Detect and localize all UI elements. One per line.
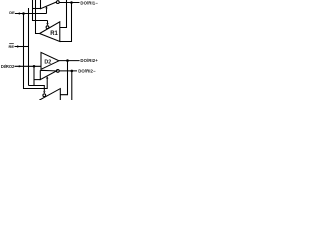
arrow into D1 enable: [45, 6, 47, 8]
wire RE line: [15, 46, 29, 48]
wire DE up to D1 enable: [46, 8, 48, 13]
bubble R2 enable: [43, 94, 46, 97]
wire DE line: [15, 13, 47, 15]
arrow on DE line: [19, 12, 22, 14]
wire B2 tap down (cropped): [71, 71, 73, 100]
wire DE rail down to D2: [24, 14, 48, 89]
arrow into R1 enable: [46, 23, 48, 25]
wire A1 tap to R1 upper input: [60, 0, 67, 28]
node DE junction dot: [22, 12, 25, 15]
wire tap to D2 inverting input jog: [33, 66, 35, 85]
overline on RE: [9, 43, 14, 45]
svg-text:DO/RI2−: DO/RI2−: [78, 69, 96, 74]
arrow on DI/RO2 line: [19, 65, 22, 67]
wire B2 bus line: [59, 70, 77, 72]
wire R1 output to rail: [36, 0, 40, 34]
receiver R2 (cropped at bottom): [39, 89, 60, 101]
driver D2 (non-inverting half): [41, 52, 59, 69]
wire RE to R2 enable: [29, 86, 45, 92]
node DI/RO2 junction dot: [33, 65, 36, 68]
svg-text:DO/RI1−: DO/RI1−: [80, 0, 98, 5]
svg-text:DI/RO2: DI/RO2: [1, 64, 15, 69]
node junction dot A2: [66, 59, 69, 62]
svg-text:R1: R1: [50, 31, 58, 37]
driver D1 (inverting half, cropped at top): [41, 0, 57, 9]
wire DI/RO2 line: [15, 65, 42, 67]
svg-text:DE: DE: [9, 10, 15, 15]
driver D2 (inverting half): [40, 70, 56, 79]
wire A2 bus line: [59, 60, 80, 62]
svg-text:D2: D2: [44, 60, 51, 66]
wire A2 tap to R2 upper input: [60, 61, 67, 95]
svg-text:DO/RI2+: DO/RI2+: [80, 58, 98, 63]
wire RE rail: [28, 8, 30, 86]
bubble on D1 output: [56, 1, 59, 4]
bubble R1 enable: [46, 26, 49, 29]
arrow into D2 enable: [46, 76, 48, 78]
bubble on D2 inverting output: [56, 70, 59, 73]
wire R1 enable drop: [47, 21, 49, 24]
arrow into R2 enable: [43, 91, 45, 93]
svg-text:RE: RE: [8, 44, 14, 49]
receiver R1: [40, 22, 60, 42]
arrow on RE line: [17, 45, 20, 47]
wire B1 bus line: [59, 2, 79, 4]
wire rail to R1 enable: [33, 0, 48, 21]
wire B1 tap to R1 lower input: [60, 3, 72, 42]
node junction dot B2: [71, 70, 74, 73]
wire D2 inverting input jog: [34, 79, 40, 81]
node junction dot B1: [70, 1, 73, 4]
wire D1 input jog: [33, 8, 41, 10]
